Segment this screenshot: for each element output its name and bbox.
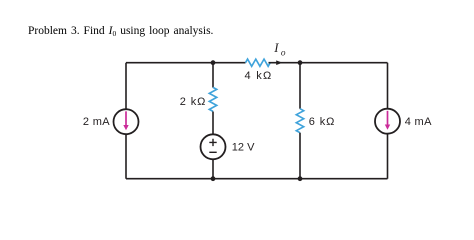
wire: top segment from 4kΩ to node B bbox=[269, 62, 301, 64]
svg-text:4 kΩ: 4 kΩ bbox=[244, 70, 272, 82]
voltage source minus sign bbox=[209, 151, 216, 153]
svg-text:2 mA: 2 mA bbox=[83, 116, 110, 128]
wire: bottom wire bbox=[126, 178, 388, 180]
current source 4 mA (circle) bbox=[375, 109, 400, 134]
wire: right branch vertical (with current source gap) bbox=[387, 63, 389, 179]
wire: branch 3 bottom (6kΩ to bottom wire) bbox=[299, 133, 301, 179]
svg-text:12 V: 12 V bbox=[232, 142, 255, 154]
wire: top-right segment bbox=[300, 62, 388, 64]
current source 2 mA arrow (magenta, down) bbox=[123, 111, 128, 130]
current arrow I_o (arrowhead on top wire) bbox=[276, 60, 282, 65]
voltage source 12 V (circle) bbox=[201, 134, 226, 159]
node B (top, 6kΩ branch junction dot) bbox=[298, 60, 303, 65]
resistor 2 kΩ (vertical zigzag) bbox=[209, 87, 216, 111]
current source 2 mA (circle) bbox=[114, 109, 139, 134]
node C (bottom, 12V branch junction dot) bbox=[211, 176, 216, 181]
node A (top, 2kΩ branch junction dot) bbox=[211, 60, 216, 65]
wire: branch 2 bottom (12V to bottom wire) bbox=[212, 159, 214, 178]
svg-text:2 kΩ: 2 kΩ bbox=[180, 96, 207, 108]
voltage source plus sign bbox=[209, 139, 216, 146]
node D (bottom, 6kΩ branch junction dot) bbox=[298, 176, 303, 181]
svg-text:6 kΩ: 6 kΩ bbox=[309, 116, 336, 128]
label 2 mA bbox=[83, 116, 110, 128]
label 2 kΩ bbox=[180, 96, 207, 108]
wire: branch 2 top (node A to 2kΩ) bbox=[212, 63, 214, 88]
current source 4 mA arrow (magenta, down) bbox=[385, 111, 390, 130]
label 6 kΩ bbox=[309, 116, 336, 128]
wire: left branch vertical (with current source gap) bbox=[125, 63, 127, 179]
wire: branch 3 top (node B to 6kΩ) bbox=[299, 63, 301, 109]
label 4 mA bbox=[405, 116, 432, 128]
label 4 kΩ bbox=[244, 70, 272, 82]
resistor 6 kΩ (vertical zigzag) bbox=[296, 109, 303, 133]
label 12 V bbox=[232, 142, 255, 154]
resistor 4 kΩ (horizontal zigzag) bbox=[246, 59, 271, 66]
svg-text:I: I bbox=[273, 41, 279, 55]
wire: top-left segment bbox=[126, 62, 246, 64]
label I_o bbox=[273, 41, 286, 59]
svg-text:4 mA: 4 mA bbox=[405, 116, 432, 128]
wire: branch 2 middle (2kΩ to 12V source) bbox=[212, 112, 214, 135]
svg-text:o: o bbox=[281, 49, 286, 59]
